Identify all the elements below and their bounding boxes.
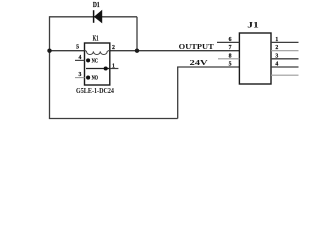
svg-text:K1: K1 <box>93 35 99 42</box>
svg-text:3: 3 <box>78 72 81 78</box>
node: junction on OUTPUT net <box>135 49 139 53</box>
wire: relay coil pin 5 stub from left junction <box>50 50 85 52</box>
pin 1 stub (common) <box>110 68 119 70</box>
wire: left vertical (24V net) <box>49 16 51 118</box>
J1 bottom-right stub (gray, unnumbered) <box>271 74 299 76</box>
svg-text:1: 1 <box>275 37 278 43</box>
J1 pin 4 wire <box>271 66 299 68</box>
J1 pin 2 stub (gray) <box>271 50 299 52</box>
svg-text:OUTPUT: OUTPUT <box>179 42 215 51</box>
pin 4 stub (NC) <box>75 59 85 61</box>
NO contact dot <box>86 76 90 80</box>
svg-text:NC: NC <box>92 57 98 64</box>
relay coil arcs <box>85 50 110 54</box>
svg-text:2: 2 <box>112 45 115 51</box>
svg-text:5: 5 <box>76 45 79 51</box>
relay common armature line <box>86 68 110 70</box>
J1 pin 8 stub (unconnected, gray) <box>218 58 239 60</box>
NC contact dot <box>86 58 90 62</box>
connector J1 box <box>239 33 271 84</box>
wire: 24V horizontal into J1 pin 5 <box>177 66 239 68</box>
svg-text:5: 5 <box>229 62 232 68</box>
wire: right riser of bottom loop <box>177 67 179 119</box>
relay K1 box <box>85 43 110 85</box>
J1 pin 6 stub <box>217 41 239 43</box>
wire: OUTPUT net from relay pin 2 to J1 pin 7 <box>110 50 240 52</box>
J1 pin 3 wire <box>271 58 299 60</box>
wire: bottom horizontal (24V net) <box>49 118 178 120</box>
svg-text:G5LE-1-DC24: G5LE-1-DC24 <box>76 87 114 95</box>
pin 3 stub (NO) <box>75 77 85 79</box>
diode D1 <box>94 10 102 23</box>
svg-text:7: 7 <box>229 45 232 51</box>
svg-text:4: 4 <box>78 55 81 61</box>
svg-text:2: 2 <box>275 45 278 51</box>
svg-text:3: 3 <box>275 53 278 59</box>
common pivot dot <box>104 66 108 70</box>
svg-text:24V: 24V <box>190 59 208 67</box>
svg-text:8: 8 <box>229 53 232 59</box>
J1 pin 1 wire (right) <box>271 41 299 43</box>
svg-text:D1: D1 <box>93 1 100 9</box>
svg-text:4: 4 <box>275 62 278 68</box>
wire: top net from left vertical to diode and corner <box>50 16 138 18</box>
node: junction on left vertical <box>47 49 51 53</box>
svg-text:6: 6 <box>229 37 232 43</box>
svg-text:NO: NO <box>92 75 99 82</box>
svg-text:J1: J1 <box>247 20 259 30</box>
wire: vertical drop from diode anode corner to output net <box>136 17 138 51</box>
svg-text:1: 1 <box>112 63 115 69</box>
